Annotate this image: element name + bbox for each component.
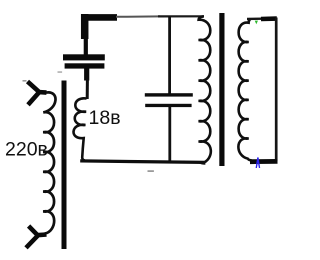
gray artifact dash below bottom wire (148, 170, 154, 172)
terminal fork bottom (26, 226, 47, 248)
gray artifact dash near fork (23, 80, 27, 82)
blue cursor artifact (256, 157, 261, 168)
inductor L2 18v secondary winding (74, 98, 87, 160)
capacitor C1 top plate (63, 54, 105, 60)
gray artifact dash left of C1 (58, 71, 63, 73)
capacitor C1 bottom plate (65, 63, 105, 68)
wire: bottom right thick (250, 159, 278, 164)
green marker artifact (255, 21, 258, 25)
wire: top thick marker bar (81, 14, 117, 21)
wire: below capacitor C1 (84, 68, 89, 81)
wire: right vertical (275, 18, 278, 162)
wire: top right thick (261, 16, 277, 21)
wire: center vertical lower (168, 107, 171, 162)
svg-text:18в: 18в (89, 107, 121, 129)
transformer core bar left (62, 81, 67, 250)
wire: top horizontal (116, 15, 160, 17)
wire: center vertical upper (168, 16, 171, 94)
wire: top right thin (247, 18, 263, 21)
inductor L4 secondary of output transformer (238, 19, 251, 161)
svg-text:220в: 220в (5, 139, 48, 161)
inductor L3 primary of output transformer (199, 16, 211, 163)
transformer core bar right (219, 13, 224, 166)
terminal fork top (28, 82, 47, 105)
wire: thick vertical from bar down to capacitor C1 (81, 14, 89, 39)
capacitor C2 top plate (145, 93, 193, 96)
inductor L1 220v primary winding (43, 92, 55, 233)
wire: bottom horizontal (80, 161, 205, 163)
capacitor C2 bottom plate (145, 104, 191, 107)
